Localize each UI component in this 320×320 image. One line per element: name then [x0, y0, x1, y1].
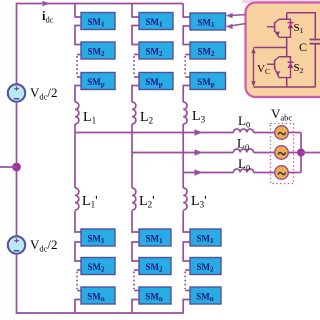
- wire: inset collector drop: [286, 13, 288, 20]
- wire: leg2 SMp to L2: [132, 86, 139, 103]
- SM box leg1 upper SM1: [81, 13, 115, 30]
- AC source c: [275, 166, 289, 180]
- wire: leg2 lower SMn to bottom bus: [132, 300, 139, 314]
- svg-text:L1': L1': [82, 194, 98, 210]
- wire: leg2 L2' to lower SM1: [132, 211, 139, 232]
- wire: leg3 lower SM2 to SMn dotted section: [185, 269, 190, 271]
- wire: inset rail S2 to bottom: [286, 78, 288, 87]
- wire: leg1 L1 to phase node A: [74, 124, 76, 133]
- wire: leg2 L2 to phase node B: [131, 124, 133, 188]
- arrow on phase B: [195, 149, 203, 155]
- arrow i_dc on top bus: [43, 1, 50, 7]
- wire: leg1 lower SM1 to SM2: [75, 242, 81, 261]
- wire: midpoint stub to left edge: [0, 166, 17, 168]
- SM box leg3 lower SM1: [190, 229, 221, 246]
- SM box leg2 lower SMn: [139, 287, 171, 304]
- wire: phase A to source a: [254, 132, 275, 134]
- inductor L0 phase A: [233, 129, 253, 133]
- dotted box around AC sources: [271, 124, 294, 184]
- wire: source b to right bus: [289, 152, 302, 154]
- wire: leg3 SMp to L3: [183, 86, 190, 103]
- submodule detail panel: [246, 3, 320, 98]
- wire: leg1 lower SM2 to SMn dotted section: [77, 269, 81, 271]
- wire: inset bottom rail: [254, 86, 316, 88]
- SM box leg3 upper SM1: [190, 13, 226, 30]
- wire: leg3 upper bus drop: [183, 4, 190, 18]
- inductor L0 phase B: [233, 149, 253, 153]
- wire: leg2 lower SM2 to SMn dotted section: [134, 269, 139, 271]
- wire: left DC bus lower: [16, 254, 18, 313]
- wire: left DC bus middle: [16, 102, 18, 237]
- wire: leg2 SM1 to SM2: [132, 26, 139, 45]
- source V_dc/2 lower: [8, 236, 25, 253]
- wire: leg1 SM2 to SMp dotted section: [77, 54, 81, 56]
- svg-text:C: C: [299, 40, 307, 54]
- wire: leg1 upper bus drop: [75, 4, 81, 18]
- arrow on phase A: [195, 129, 203, 135]
- node: right bus junction: [297, 149, 305, 157]
- AC source a: [275, 126, 289, 140]
- wire: leg2 SM2 to SMp dotted section: [134, 54, 139, 56]
- SM box leg3 lower SM2: [190, 258, 221, 275]
- capacitor C: [310, 40, 320, 88]
- AC source b: [275, 146, 289, 160]
- wire: leg2 upper bus drop: [132, 4, 139, 18]
- source V_dc/2 upper: [8, 84, 25, 101]
- inductor L2': [132, 188, 136, 210]
- wire: leg3 lower SM1 to SM2: [183, 242, 190, 261]
- inductor L1: [75, 102, 79, 124]
- wire: right bus to edge: [301, 152, 320, 154]
- wire: source c to right bus: [289, 172, 302, 174]
- SM box leg1 lower SMn: [81, 287, 115, 304]
- callout line lower from panel to SM1: [231, 24, 246, 26]
- inductor L3': [183, 188, 187, 210]
- wire: left DC bus upper: [16, 3, 18, 85]
- SM box leg3 lower SMn: [190, 287, 221, 304]
- wire: leg1 phase node to L1': [74, 133, 76, 189]
- SM box leg1 lower SM1: [81, 229, 115, 246]
- wire: leg3 L3' to lower SM1: [183, 211, 190, 232]
- node: DC midpoint junction: [12, 163, 21, 172]
- transistor S2 (IGBT with diode): [267, 57, 294, 78]
- wire: leg1 SM1 to SM2: [75, 26, 81, 45]
- wire: phase A line: [75, 132, 234, 134]
- wire: leg3 SM1 to SM2: [183, 26, 190, 45]
- inductor L2: [132, 102, 136, 124]
- decorative pink strip above panel: [243, 0, 320, 3]
- wire: source a to right bus: [289, 132, 302, 134]
- wire: leg1 SMp to L1: [75, 86, 81, 103]
- wire: leg3 L3 to phase node C: [182, 124, 184, 188]
- SM box leg2 lower SM2: [139, 258, 171, 275]
- wire: phase C line: [183, 172, 233, 174]
- SM box leg1 lower SM2: [81, 258, 115, 275]
- wire: leg3 lower SMn to bottom bus: [183, 300, 190, 314]
- wire: top DC bus: [17, 3, 184, 5]
- wire: inset rail S1 to S2: [286, 37, 288, 56]
- wire: phase B to source b: [254, 152, 275, 154]
- SM box leg2 upper SM2: [139, 42, 173, 59]
- inductor L1': [75, 188, 79, 210]
- wire: bottom DC bus: [16, 312, 184, 314]
- callout line upper from panel to SM1: [231, 14, 246, 17]
- wire: phase B line: [132, 152, 234, 154]
- wire: leg1 L1' to lower SM1: [75, 211, 81, 232]
- svg-text:L2': L2': [139, 194, 155, 210]
- transistor S1 (IGBT with diode): [267, 19, 294, 37]
- SM box leg2 lower SM1: [139, 229, 171, 246]
- wire: inset top rail: [287, 13, 316, 39]
- SM box leg3 upper SM2: [190, 42, 226, 59]
- wire: leg2 lower SM1 to SM2: [132, 242, 139, 261]
- SM box leg1 upper SM2: [81, 42, 115, 59]
- wire: leg3 SM2 to SMp dotted section: [185, 54, 190, 56]
- Vc measurement arrow: [251, 48, 255, 87]
- SM box leg1 upper SMp: [81, 73, 115, 90]
- SM box leg3 upper SMp: [190, 73, 226, 90]
- wire: midpoint tap to Vc: [254, 47, 287, 49]
- inductor L3: [183, 102, 187, 124]
- inductor L0 phase C: [233, 169, 253, 173]
- SM box leg2 upper SM1: [139, 13, 173, 30]
- wire: leg1 lower SMn to bottom bus: [75, 300, 81, 314]
- arrow on phase C: [195, 169, 203, 175]
- wire: right vertical bus: [300, 133, 302, 173]
- SM box leg2 upper SMp: [139, 73, 173, 90]
- svg-text:L3': L3': [191, 194, 207, 210]
- wire: phase C to source c: [254, 172, 275, 174]
